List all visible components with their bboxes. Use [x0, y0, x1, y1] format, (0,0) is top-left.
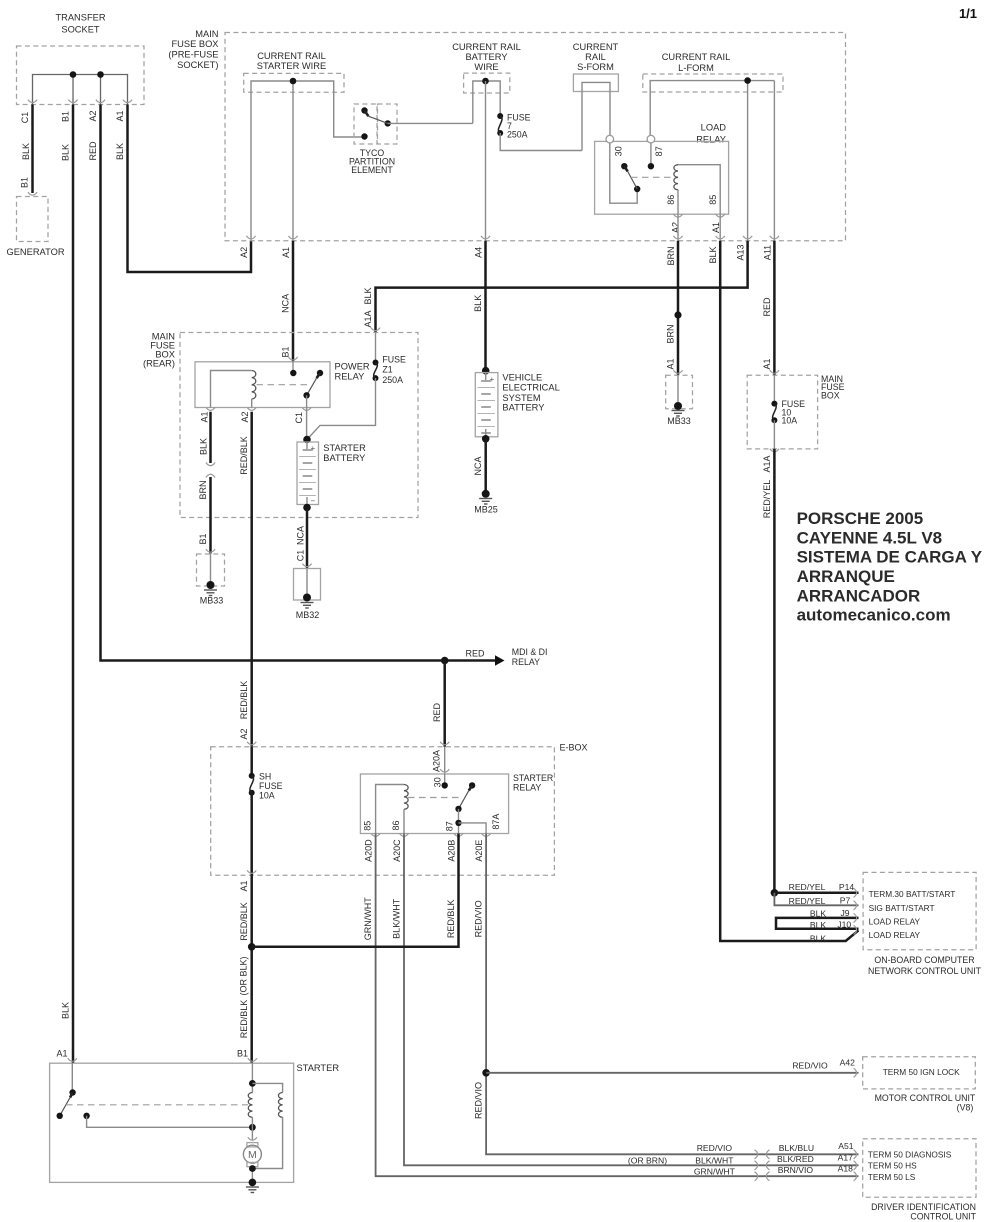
load relay switch blade	[624, 166, 627, 171]
starter relay switch blade	[469, 785, 472, 790]
driver identification pin cups	[854, 1150, 857, 1159]
starter wire motor to ground	[251, 1167, 253, 1183]
svg-text:RED/YEL: RED/YEL	[762, 480, 772, 519]
svg-text:J9: J9	[840, 908, 849, 918]
starter field coil branch	[252, 1083, 282, 1092]
wire BRN load relay 86 to MB33	[677, 241, 680, 375]
MB33 left internal wire	[210, 554, 212, 583]
svg-text:BLK: BLK	[199, 438, 209, 455]
wire A13 BLK/A1A to rear fuse box	[376, 241, 748, 332]
starter battery box	[297, 442, 319, 505]
svg-text:LOAD RELAY: LOAD RELAY	[869, 917, 921, 927]
wire A1 BLK/BRN power relay to MB33	[209, 412, 212, 554]
svg-text:NETWORK CONTROL UNIT: NETWORK CONTROL UNIT	[868, 966, 982, 976]
fuse 10 10A	[771, 401, 777, 407]
MB33 right pin cup	[673, 370, 682, 373]
starter battery internal stubs	[306, 442, 308, 505]
wire B1 BLK long to starter	[72, 105, 75, 1064]
vehicle battery bottom node	[482, 435, 490, 443]
svg-text:SH: SH	[259, 772, 271, 782]
starter relay pivot wire to 87	[458, 809, 460, 834]
tyco contact top	[361, 107, 367, 113]
svg-text:MB25: MB25	[474, 505, 498, 515]
svg-text:SYSTEM: SYSTEM	[502, 393, 540, 403]
wire RED down to E-BOX	[443, 661, 446, 747]
inline connector row A51	[755, 1150, 770, 1159]
wire fuse7 to s-form rail	[500, 133, 582, 151]
current rail s-form box	[573, 74, 618, 92]
svg-text:A11: A11	[763, 245, 773, 260]
load relay pin 87 terminal	[647, 135, 655, 143]
motor control unit box	[863, 1057, 976, 1089]
starter relay 30 contact	[442, 782, 448, 788]
svg-text:M: M	[248, 1149, 257, 1161]
svg-text:MB33: MB33	[200, 596, 224, 606]
generator box	[17, 197, 49, 242]
pre-fuse box bottom pin cups	[246, 236, 255, 239]
svg-text:ELECTRICAL: ELECTRICAL	[502, 382, 559, 392]
svg-text:FUSE: FUSE	[259, 781, 283, 791]
wire C1 power relay to starter battery	[306, 408, 308, 440]
current rail starter wire box	[244, 73, 344, 92]
fuse 7 250A	[497, 113, 503, 119]
transfer socket internal bus wire	[33, 75, 128, 105]
starter motor brush bottom	[247, 1162, 258, 1166]
power relay pivot wire to C1	[306, 395, 308, 407]
starter relay coil wiring to 85/86	[376, 785, 404, 834]
svg-text:RELAY: RELAY	[513, 783, 541, 793]
wire RED/BLK relay 87 to starter feed junction	[252, 834, 459, 947]
power relay coil	[252, 371, 256, 400]
svg-text:A17: A17	[838, 1153, 854, 1163]
svg-text:C1: C1	[296, 550, 306, 562]
svg-text:A1: A1	[56, 1049, 67, 1059]
svg-text:P7: P7	[840, 896, 851, 906]
load relay bottom pin cups	[673, 214, 682, 217]
MB33 left pin cup	[206, 549, 215, 552]
svg-text:WIRE: WIRE	[474, 62, 498, 72]
power relay blade tip	[317, 370, 323, 376]
svg-text:STARTER WIRE: STARTER WIRE	[257, 61, 326, 71]
svg-text:L-FORM: L-FORM	[678, 63, 714, 73]
MB33 right box	[666, 375, 693, 409]
svg-text:A20E: A20E	[474, 840, 484, 862]
svg-text:STARTER: STARTER	[323, 443, 366, 453]
node on bus at B1	[70, 71, 77, 78]
wire P14 row	[774, 892, 858, 895]
svg-text:A51: A51	[838, 1141, 854, 1151]
starter motor brush top	[247, 1143, 258, 1147]
svg-text:(PRE-FUSE: (PRE-FUSE	[168, 50, 218, 60]
load relay switch pivot	[634, 186, 640, 192]
fuse 10 wire from box edge	[773, 375, 775, 403]
driver identification box	[863, 1139, 976, 1198]
starter battery top node	[303, 436, 311, 444]
svg-text:RED/BLK: RED/BLK	[239, 1000, 249, 1039]
svg-text:(V8): (V8)	[957, 1102, 974, 1112]
E-BOX pin cups top	[247, 742, 256, 745]
svg-text:GRN/WHT: GRN/WHT	[694, 1166, 736, 1176]
svg-text:A1: A1	[200, 411, 210, 422]
svg-text:(OR BLK): (OR BLK)	[239, 956, 249, 995]
svg-text:BLK: BLK	[708, 246, 718, 263]
ign lock pin cup	[854, 1068, 857, 1077]
svg-text:BLK: BLK	[810, 920, 827, 930]
svg-text:STARTER: STARTER	[513, 773, 553, 783]
svg-text:A1A: A1A	[762, 455, 772, 472]
svg-text:BLK: BLK	[810, 909, 827, 919]
starter ground bars	[246, 1187, 259, 1193]
wire A4 BLK to vehicle battery	[484, 241, 487, 371]
svg-text:RAIL: RAIL	[585, 52, 606, 62]
current rail l-form box	[643, 74, 783, 92]
wire A1 BLK to pre-fuse box pin A2	[128, 105, 252, 273]
starter relay coil	[404, 785, 408, 810]
MB32 ground bars	[301, 603, 314, 609]
svg-text:P14: P14	[839, 882, 855, 892]
power relay B1 contact	[290, 370, 296, 376]
svg-text:E-BOX: E-BOX	[560, 743, 588, 753]
svg-text:CURRENT: CURRENT	[573, 42, 619, 52]
main fuse box pin cup	[770, 370, 779, 373]
svg-text:MOTOR CONTROL UNIT: MOTOR CONTROL UNIT	[875, 1093, 976, 1103]
svg-text:A1: A1	[666, 358, 676, 369]
svg-text:CONTROL UNIT: CONTROL UNIT	[910, 1211, 976, 1221]
inline connector on A1 wire	[206, 463, 215, 478]
starter relay pin 30 cup	[440, 769, 449, 772]
MB33 left box	[197, 554, 225, 586]
svg-text:86: 86	[666, 195, 676, 205]
transfer socket box	[17, 46, 145, 105]
jumper J9 to J10	[776, 918, 859, 929]
svg-text:RED/VIO: RED/VIO	[474, 900, 484, 937]
svg-text:MB33: MB33	[667, 416, 691, 426]
tyco switch blade	[365, 111, 369, 117]
svg-text:BLK: BLK	[810, 934, 827, 944]
svg-text:RED/BLK: RED/BLK	[239, 436, 249, 475]
svg-text:BLK: BLK	[61, 144, 71, 161]
svg-text:B1: B1	[281, 346, 291, 357]
wire BLK load relay 85 to on-board computer	[720, 241, 858, 941]
svg-text:LOAD: LOAD	[701, 123, 727, 133]
svg-text:A42: A42	[840, 1058, 856, 1068]
svg-text:BRN: BRN	[666, 246, 676, 265]
svg-text:SOCKET): SOCKET)	[177, 60, 218, 70]
svg-text:ARRANQUE: ARRANQUE	[797, 567, 895, 586]
svg-text:BATTERY: BATTERY	[502, 403, 544, 413]
node on MDI wire	[441, 657, 449, 665]
svg-text:30: 30	[433, 777, 443, 787]
svg-text:TRANSFER: TRANSFER	[55, 13, 105, 23]
svg-text:GRN/WHT: GRN/WHT	[363, 897, 373, 940]
power relay B1 pin cup	[288, 357, 297, 360]
svg-text:RED/BLK: RED/BLK	[446, 900, 456, 939]
starter A1 internal wire	[71, 1063, 73, 1092]
fuse 10 wire to box bottom	[773, 420, 775, 449]
svg-text:CURRENT RAIL: CURRENT RAIL	[452, 42, 521, 52]
svg-text:RED/YEL: RED/YEL	[789, 896, 826, 906]
starter node below motor	[249, 1165, 256, 1172]
starter motor cup	[248, 1137, 257, 1140]
svg-text:ON-BOARD COMPUTER: ON-BOARD COMPUTER	[874, 955, 974, 965]
E-BOX bottom cup on A1 wire	[247, 870, 256, 873]
svg-text:A18: A18	[838, 1164, 854, 1174]
starter relay 30 internal wire	[444, 774, 446, 785]
current rail l-form rail	[650, 81, 774, 241]
svg-text:ELEMENT: ELEMENT	[351, 165, 393, 175]
wire A4 from rail down	[485, 81, 487, 241]
svg-text:A20A: A20A	[432, 750, 442, 772]
vehicle battery top node	[482, 367, 490, 375]
svg-text:BOX: BOX	[821, 391, 840, 401]
svg-text:−: −	[311, 497, 316, 506]
wire BLK/WHT to driver identification	[404, 834, 859, 1166]
svg-text:(OR BRN): (OR BRN)	[628, 1155, 667, 1165]
vehicle battery box	[475, 373, 498, 437]
node on starter-wire rail	[290, 78, 297, 85]
svg-text:B1: B1	[198, 533, 208, 544]
starter wire coil to motor	[251, 1117, 253, 1140]
svg-text:BLK/BLU: BLK/BLU	[779, 1143, 814, 1153]
svg-text:RED/YEL: RED/YEL	[789, 882, 826, 892]
svg-text:RELAY: RELAY	[696, 135, 726, 145]
svg-text:MB32: MB32	[296, 610, 320, 620]
load relay coil wiring to pins 86/85	[678, 165, 720, 215]
power relay bottom pin cups	[206, 407, 215, 410]
svg-text:85: 85	[363, 821, 373, 831]
tyco contact bottom	[361, 133, 367, 139]
starter B1 node	[249, 1080, 256, 1087]
wire A20A from RED to starter relay	[444, 747, 446, 774]
MB33 left ground dot	[207, 581, 215, 589]
svg-text:BLK/WHT: BLK/WHT	[695, 1155, 734, 1165]
load relay pin wires to box edge	[678, 214, 720, 241]
svg-text:B1: B1	[20, 177, 30, 188]
on-board computer box	[863, 872, 976, 949]
svg-text:A4: A4	[474, 247, 484, 258]
svg-text:A1: A1	[115, 110, 125, 121]
svg-text:86: 86	[391, 820, 401, 830]
svg-text:J10: J10	[837, 920, 851, 930]
svg-text:10A: 10A	[782, 416, 798, 426]
tyco partition element boxes	[354, 104, 377, 144]
power relay coil wiring to pins A1/A2	[211, 371, 252, 408]
svg-text:Z1: Z1	[382, 365, 392, 375]
starter motor	[243, 1145, 261, 1163]
starter relay branch to 87A	[459, 823, 487, 834]
generator pin cup	[28, 192, 37, 195]
svg-text:BLK: BLK	[363, 287, 373, 304]
svg-text:B1: B1	[61, 111, 71, 122]
starter relay actuation dashed line	[408, 797, 461, 799]
fuse Z1 wire from box edge	[375, 333, 377, 363]
svg-text:C1: C1	[20, 112, 30, 124]
svg-text:BLK: BLK	[115, 143, 125, 160]
wire fuse Z1 to starter battery	[307, 378, 376, 439]
svg-text:RELAY: RELAY	[512, 657, 540, 667]
load relay pin 30 terminal	[606, 135, 614, 143]
on-board computer pin cups	[854, 888, 857, 897]
svg-text:GENERATOR: GENERATOR	[7, 247, 65, 257]
starter B1 internal wire	[251, 1063, 253, 1092]
wire NCA pre-fuse A1 to power relay B1	[292, 241, 295, 362]
arrow to MDI & DI relay	[495, 655, 505, 666]
power relay switch blade	[317, 373, 320, 378]
svg-text:RED: RED	[465, 649, 485, 659]
svg-text:A1: A1	[762, 358, 772, 369]
MB32 pin cup	[302, 564, 311, 567]
starter box	[50, 1063, 294, 1182]
wire SH fuse down through E-BOX	[250, 793, 253, 1063]
svg-text:(REAR): (REAR)	[143, 359, 175, 369]
node RED/VIO to ign lock	[482, 1069, 490, 1077]
wire A11 RED to main fuse box	[773, 241, 776, 375]
svg-text:VEHICLE: VEHICLE	[502, 373, 542, 383]
wire RED/VIO to term 50 ign lock	[486, 1072, 858, 1074]
svg-text:250A: 250A	[382, 375, 403, 385]
starter field coil	[278, 1093, 282, 1118]
starter pull-in coil	[248, 1093, 252, 1118]
svg-text:A1: A1	[239, 880, 249, 891]
pin cups transfer socket	[28, 100, 37, 103]
starter relay blade tip	[469, 782, 475, 788]
svg-text:A2: A2	[239, 728, 249, 739]
svg-text:TERM 50 LS: TERM 50 LS	[868, 1172, 916, 1182]
svg-text:CAYENNE 4.5L V8: CAYENNE 4.5L V8	[797, 528, 943, 547]
svg-text:C1: C1	[294, 412, 304, 424]
svg-text:MAIN: MAIN	[195, 29, 218, 39]
svg-text:A1: A1	[281, 247, 291, 258]
current rail s-form rail	[582, 82, 610, 150]
svg-text:A2: A2	[88, 110, 98, 121]
starter solenoid blade end	[57, 1113, 63, 1119]
svg-text:BRN/VIO: BRN/VIO	[778, 1165, 814, 1175]
svg-text:TERM 50 IGN LOCK: TERM 50 IGN LOCK	[883, 1067, 960, 1077]
svg-text:BATTERY: BATTERY	[323, 453, 365, 463]
svg-text:+: +	[490, 375, 495, 384]
svg-text:250A: 250A	[507, 130, 528, 140]
svg-text:85: 85	[708, 195, 718, 205]
main fuse box bottom cup	[770, 449, 779, 452]
starter contact wire to motor branch	[87, 1116, 253, 1128]
power relay actuation dashed line	[257, 384, 311, 386]
starter solenoid switch common	[69, 1089, 75, 1095]
load relay 87 internal wire	[650, 143, 652, 166]
svg-text:BLK: BLK	[21, 143, 31, 160]
svg-text:ARRANCADOR: ARRANCADOR	[797, 586, 921, 605]
svg-text:RED: RED	[88, 141, 98, 161]
starter battery plates	[299, 457, 316, 496]
svg-text:87: 87	[445, 821, 455, 831]
MB32 box	[294, 569, 321, 601]
wire A2 RED down and right to MDI relay	[101, 105, 496, 661]
wire NCA/C1 starter battery to MB32	[306, 508, 309, 569]
svg-text:BLK/WHT: BLK/WHT	[392, 898, 402, 939]
power relay B1 internal wire	[292, 362, 294, 373]
svg-text:SIG BATT/START: SIG BATT/START	[869, 903, 935, 913]
main fuse box box	[747, 375, 817, 449]
node on bus at A2	[97, 71, 104, 78]
current rail battery wire rail	[473, 81, 500, 123]
wire NCA vehicle battery to MB25	[484, 439, 487, 494]
svg-text:RED/VIO: RED/VIO	[697, 1143, 733, 1153]
svg-text:RED/VIO: RED/VIO	[792, 1060, 828, 1070]
svg-text:RED/BLK: RED/BLK	[239, 681, 249, 720]
svg-text:BRN: BRN	[666, 324, 676, 343]
starter field coil return	[252, 1117, 282, 1168]
vehicle battery internal stubs	[485, 373, 487, 437]
svg-text:automecanico.com: automecanico.com	[797, 606, 951, 625]
wire GRN/WHT to driver identification	[376, 834, 859, 1177]
load relay coil	[674, 165, 678, 190]
wire RED/VIO from 87A down	[486, 834, 858, 1155]
MB33 left ground bars	[204, 590, 217, 596]
fuse Z1	[373, 360, 379, 366]
svg-text:FUSE: FUSE	[382, 355, 406, 365]
MB33 right internal wire	[677, 375, 679, 404]
svg-text:A13: A13	[736, 244, 746, 260]
svg-text:POWER: POWER	[335, 361, 370, 371]
rear fuse box top pin cup	[371, 328, 380, 331]
node RED/YEL at P14	[771, 889, 779, 897]
wire RED/YEL to on-board computer	[773, 449, 776, 893]
load relay 30 internal wire	[610, 143, 637, 203]
svg-text:BLK: BLK	[61, 1002, 71, 1019]
svg-text:BLK/RED: BLK/RED	[777, 1154, 814, 1164]
svg-text:BATTERY: BATTERY	[465, 52, 507, 62]
starter relay bottom pin cups	[371, 833, 380, 836]
power relay box	[195, 362, 330, 408]
svg-text:CURRENT RAIL: CURRENT RAIL	[662, 52, 731, 62]
svg-text:BLK: BLK	[473, 295, 483, 312]
svg-text:A2: A2	[671, 222, 681, 233]
svg-text:SOCKET: SOCKET	[61, 25, 100, 35]
svg-text:A20D: A20D	[364, 839, 374, 862]
svg-text:A2: A2	[239, 247, 249, 258]
svg-text:10A: 10A	[259, 791, 275, 801]
svg-text:NCA: NCA	[473, 456, 483, 475]
svg-text:S-FORM: S-FORM	[577, 62, 614, 72]
E-BOX box	[211, 747, 555, 876]
svg-text:A2: A2	[240, 411, 250, 422]
starter solenoid switch blade	[70, 1093, 73, 1098]
svg-text:LOAD RELAY: LOAD RELAY	[869, 930, 921, 940]
svg-text:A20C: A20C	[392, 839, 402, 862]
tyco contact right	[385, 120, 391, 126]
junction node starter feed	[248, 943, 256, 951]
MB32 internal wire	[306, 569, 308, 597]
svg-text:TERM 50 DIAGNOSIS: TERM 50 DIAGNOSIS	[868, 1149, 952, 1159]
svg-text:RED/VIO: RED/VIO	[474, 1082, 484, 1119]
svg-text:+: +	[311, 444, 316, 453]
svg-text:MDI & DI: MDI & DI	[512, 647, 548, 657]
node on battery-wire rail	[482, 78, 489, 85]
load relay 87 contact	[648, 163, 654, 169]
starter actuation dashed line	[66, 1104, 248, 1106]
SH fuse 10A	[249, 773, 255, 779]
svg-text:RELAY: RELAY	[335, 372, 365, 382]
wire tyco to battery-wire rail	[388, 122, 473, 124]
current rail starter wire rail	[251, 81, 365, 241]
wire P7 row	[774, 893, 858, 906]
vehicle battery plates	[478, 388, 496, 427]
MB32 ground dot	[303, 594, 311, 602]
svg-text:SISTEMA DE CARGA Y: SISTEMA DE CARGA Y	[797, 548, 983, 567]
svg-text:FUSE BOX: FUSE BOX	[171, 39, 218, 49]
power relay switch pivot	[303, 392, 309, 398]
svg-text:30: 30	[614, 146, 624, 156]
svg-text:NCA: NCA	[296, 526, 306, 545]
